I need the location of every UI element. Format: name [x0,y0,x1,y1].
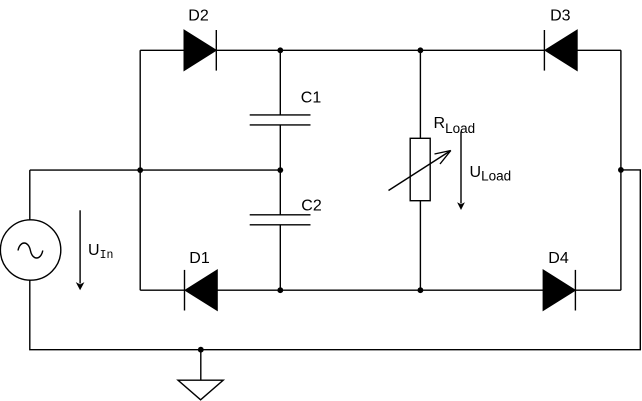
ground [178,350,223,400]
svg-text:D1: D1 [189,250,210,267]
wire C2 bottom lead [279,225,281,290]
node junction bottom rail / C2 [277,287,283,293]
wire bottom rail y=290 [140,289,621,291]
wire right vertical x=621 [620,50,622,290]
svg-text:D3: D3 [550,8,571,25]
wire load branch vertical x=420 [419,50,421,290]
capacitor C1 [250,115,311,125]
diode D3 [544,30,577,71]
node junction bottom return / ground [198,347,204,353]
wire source top lead [29,170,31,220]
svg-text:ULoad: ULoad [470,164,512,184]
wire C1 bottom lead [279,125,281,170]
node junction bottom rail / load branch [418,287,424,293]
wire left branch vertical x=140 [139,50,141,290]
AC source V1 [0,220,60,280]
diode D2 [184,30,216,71]
node junction top rail / load branch [418,47,424,53]
diode D4 [543,270,575,311]
arrow UIn [76,210,85,290]
wire middle rail y=170 [30,169,280,171]
arrow ULoad [457,132,465,211]
resistor RLoad adjustment arrow [389,151,451,191]
node junction middle rail / left branch [137,167,143,173]
wire top rail from left branch to right corner [140,49,621,51]
svg-text:C2: C2 [301,198,322,215]
node junction middle rail / C2 [277,167,283,173]
svg-text:D2: D2 [188,8,209,25]
svg-text:UIn: UIn [88,242,113,262]
node junction top rail / C1 [277,47,283,53]
capacitor C2 [250,215,311,225]
node junction right vertical / outer return [618,167,624,173]
diode D1 [185,270,218,311]
svg-text:D4: D4 [548,250,569,267]
svg-text:C1: C1 [301,90,322,107]
wire C2 top lead [279,170,281,215]
wire C1 top lead [279,50,281,115]
resistor RLoad body [410,138,430,200]
wire source bottom lead and bottom return [30,170,641,350]
svg-text:RLoad: RLoad [434,115,476,136]
